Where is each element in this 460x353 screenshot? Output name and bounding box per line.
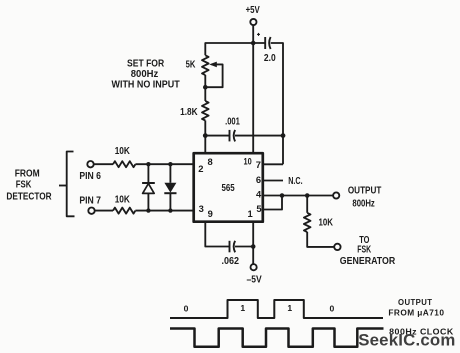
svg-text:PIN 7: PIN 7 (79, 196, 101, 207)
wire: junction down to R 10K out (306, 196, 308, 213)
svg-text:1: 1 (240, 303, 245, 313)
svg-text:FROM: FROM (15, 169, 40, 180)
svg-text:10K: 10K (319, 218, 334, 229)
5K wiper arrow shaft (207, 64, 223, 87)
wire: IC pin 5 up to pin 4 line (263, 196, 282, 210)
wire: .001 bus left segment (205, 135, 229, 137)
diode D2 cathode bar (164, 192, 176, 194)
svg-text:0: 0 (330, 303, 335, 313)
wire: IC pin 4 to output terminal (263, 195, 333, 197)
wire: R 10K out to FSK generator terminal (307, 232, 334, 247)
svg-text:9: 9 (208, 208, 213, 219)
wire: 1.8K bottom to .001 bus and IC pin 8 (204, 121, 206, 154)
diode D2 top lead (169, 164, 171, 183)
svg-text:.001: .001 (225, 116, 240, 127)
svg-text:5: 5 (256, 203, 261, 214)
capacitor C 2.0 right curved plate (269, 37, 270, 49)
diode D1 top lead (147, 164, 149, 183)
svg-text:565: 565 (222, 183, 235, 194)
svg-text:+5V: +5V (246, 5, 260, 16)
svg-text:10: 10 (244, 155, 252, 166)
svg-text:0: 0 (184, 303, 189, 313)
input bracket (67, 152, 75, 217)
svg-text:.062: .062 (222, 256, 240, 267)
resistor R 10K (bottom input) zigzag (113, 208, 135, 214)
waveform: uA710 output trace (170, 300, 383, 318)
svg-text:–5V: –5V (247, 275, 262, 286)
junction: bottom line / diode D2 (168, 208, 172, 212)
svg-text:PIN 6: PIN 6 (79, 171, 101, 182)
wire: 2.0 cap to right rail corner (271, 43, 283, 164)
junction: right rail / .001 bus (281, 133, 286, 138)
wire: +5V rail down to IC pin 10 (252, 25, 254, 153)
svg-text:3: 3 (199, 203, 204, 214)
junction: wiper tie to 5K bottom (203, 85, 208, 90)
resistor R 10K (top input) zigzag (113, 161, 135, 167)
wire: PIN 6 to R 10K (94, 163, 113, 165)
waveform: 800Hz clock trace (170, 329, 384, 347)
svg-text:OUTPUT: OUTPUT (398, 298, 432, 307)
potentiometer R 5K zigzag (202, 55, 209, 75)
svg-text:GENERATOR: GENERATOR (340, 256, 396, 267)
junction: pin1 rail / .062 (251, 244, 256, 249)
svg-text:2.0: 2.0 (264, 53, 276, 64)
capacitor C 2.0 left plate (264, 37, 266, 49)
IC U1 565 body (194, 153, 263, 222)
TO FSK GENERATOR terminal circle (334, 244, 340, 250)
junction: top line / diode D1 (146, 162, 150, 166)
capacitor C .001 left plate (229, 130, 231, 142)
diode D1 bottom lead (147, 193, 149, 210)
+5V terminal circle (250, 19, 256, 25)
-5V terminal circle (251, 264, 257, 270)
svg-text:FSK: FSK (16, 180, 32, 191)
svg-text:8: 8 (207, 156, 212, 167)
svg-text:2: 2 (198, 163, 203, 174)
bracket pointer tick (59, 185, 67, 187)
wire: R 10K to IC pin 3 (135, 210, 193, 212)
capacitor C .001 right curved plate (234, 130, 235, 142)
wire: .062 to pin 1 rail (235, 246, 253, 248)
junction: pin5/pin4 tie (280, 193, 285, 198)
svg-text:5K: 5K (186, 59, 196, 70)
capacitor C 2.0 polarity plus (257, 33, 260, 36)
diode D2 bottom lead (169, 193, 171, 210)
junction: bottom line / diode D1 (146, 208, 150, 212)
svg-text:800Hz: 800Hz (352, 199, 374, 210)
junction: 1.8K / .001 bus / pin 8 (203, 133, 208, 138)
PIN 6 input terminal (87, 161, 93, 167)
capacitor C .062 right curved plate (234, 241, 235, 253)
junction: +5V rail / top horizontal bus (251, 41, 256, 46)
wire: .001 bus right segment to right rail (235, 135, 283, 137)
svg-text:FSK: FSK (357, 244, 371, 255)
wire: top bus left segment (to 5K pot top) (205, 43, 265, 55)
OUTPUT terminal circle (333, 192, 339, 198)
svg-text:1: 1 (247, 208, 252, 219)
svg-text:OUTPUT: OUTPUT (348, 186, 382, 197)
diode D2 triangle (filled, pointing down) (164, 183, 176, 193)
svg-text:1: 1 (287, 303, 292, 313)
svg-text:N.C.: N.C. (288, 176, 302, 187)
svg-text:FROM μA710: FROM μA710 (388, 309, 444, 318)
svg-text:800Hz: 800Hz (131, 69, 159, 80)
svg-text:6: 6 (256, 174, 261, 185)
svg-text:SeekIC.com: SeekIC.com (358, 330, 455, 349)
svg-text:1.8K: 1.8K (180, 107, 198, 118)
wire: IC pin 9 down (205, 222, 229, 247)
wire: IC pin 7 to right rail (263, 163, 283, 165)
diode D1 triangle (outline, pointing up) (143, 184, 155, 194)
5K wiper arrowhead (209, 62, 217, 68)
wire: R 10K to IC pin 2 (135, 163, 193, 165)
junction: pin4 line / R 10K out (305, 193, 310, 198)
resistor R 1.8K zigzag (202, 101, 209, 121)
wire: 5K bottom to 1.8K top (204, 75, 206, 101)
svg-text:SET FOR: SET FOR (127, 58, 165, 69)
capacitor C .062 left plate (229, 241, 231, 253)
svg-text:DETECTOR: DETECTOR (6, 192, 52, 203)
svg-text:7: 7 (256, 159, 261, 170)
svg-text:4: 4 (256, 188, 262, 199)
svg-text:10K: 10K (115, 146, 131, 157)
wire: PIN 7 to R 10K (95, 210, 113, 212)
wire: IC pin 1 down to -5V (252, 222, 254, 264)
svg-text:WITH NO INPUT: WITH NO INPUT (112, 80, 181, 91)
junction: top line / diode D2 (168, 162, 172, 166)
resistor R 10K (output) zigzag (304, 213, 311, 232)
svg-text:10K: 10K (115, 194, 131, 205)
wire: IC pin 6 stub (263, 180, 283, 182)
PIN 7 input terminal (88, 208, 94, 214)
diode D1 cathode bar (142, 182, 155, 184)
